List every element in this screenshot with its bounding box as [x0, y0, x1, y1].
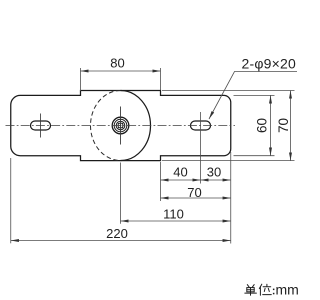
label 2-phi9x20 leader: [209, 72, 297, 120]
dim 110 text: [163, 206, 184, 221]
extension x230.75 bottom: [230, 152, 232, 244]
dim 80 line: [81, 70, 161, 72]
dim 80 extension right: [160, 68, 162, 90]
dim 70 bottom text: [187, 185, 201, 200]
dim 60 extension bottom: [234, 155, 275, 157]
svg-text:110: 110: [163, 206, 184, 221]
unit note mm: [276, 281, 299, 297]
horizontal centerline: [6, 125, 236, 127]
boss circle solid right half: [121, 91, 151, 161]
bolt vertical centerline: [120, 107, 122, 145]
svg-text:220: 220: [106, 226, 128, 241]
svg-text:60: 60: [254, 118, 269, 133]
extension x10.75 bottom: [10, 158, 12, 243]
svg-text:mm: mm: [276, 281, 299, 297]
dim 40 line: [161, 179, 201, 181]
svg-text:80: 80: [110, 56, 124, 71]
svg-text:2-φ9×20: 2-φ9×20: [242, 56, 296, 72]
left slot: [31, 121, 51, 130]
dim 110 line: [121, 220, 231, 222]
dim 40 text: [173, 165, 187, 180]
dim 220 text: [106, 226, 128, 241]
svg-text:70: 70: [187, 185, 201, 200]
extension x160.5 bottom: [160, 162, 162, 201]
dim 30 text: [207, 165, 221, 180]
dim 80 text: [110, 56, 124, 71]
unit note colon: [273, 289, 275, 295]
right slot centerline and extension: [200, 112, 202, 184]
boss circle hidden left half: [91, 91, 121, 161]
svg-text:40: 40: [173, 165, 187, 180]
dim 60 line: [270, 95, 272, 155]
left slot centerline: [40, 114, 42, 138]
svg-text:30: 30: [207, 165, 221, 180]
dim 60 extension top: [234, 94, 275, 96]
plate outline: [11, 91, 231, 161]
dim 70 extension bottom: [162, 160, 295, 162]
svg-text:70: 70: [276, 118, 291, 133]
label 2-phi9x20 text: [242, 56, 296, 72]
dim 30 line: [201, 179, 231, 181]
dim 70 extension top: [162, 90, 295, 92]
extension x120.5 bottom: [120, 163, 122, 224]
dim 80 extension left: [80, 68, 82, 91]
unit note kanji i: [259, 284, 271, 295]
right slot: [191, 121, 211, 130]
unit note kanji tan: [245, 285, 257, 296]
dim 70 text: [276, 118, 291, 133]
dim 60 text: [254, 118, 269, 133]
dim 70 bottom line: [161, 197, 231, 199]
bolt U-center: [112, 117, 129, 134]
dim 70 line: [290, 91, 292, 161]
dim 220 line: [11, 240, 231, 242]
